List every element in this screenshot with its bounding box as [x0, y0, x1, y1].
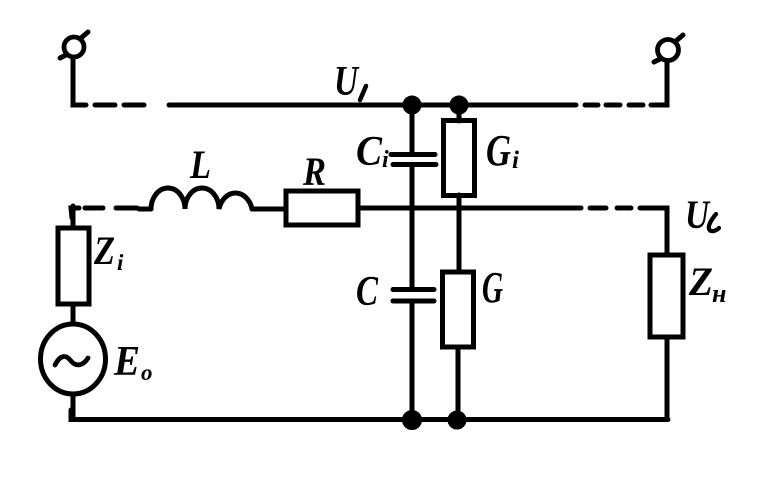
wire inductor to resistor R	[252, 207, 286, 212]
label Zн	[688, 259, 726, 308]
svg-text:C: C	[356, 269, 379, 315]
svg-text:L: L	[189, 142, 211, 187]
wire from G down to bottom bus	[456, 347, 461, 419]
wire middle bus right corner down to load	[640, 208, 667, 255]
node J4 (bottom bus junction at x=457)	[450, 413, 464, 427]
wire middle bus solid from R through crossings	[358, 206, 581, 211]
node J2 (top bus junction at x=459)	[452, 98, 466, 112]
capacitor Ci	[391, 155, 436, 165]
load impedance Zн	[650, 255, 683, 337]
label U1	[334, 59, 366, 105]
capacitor C	[393, 290, 434, 302]
wire from node J2 down to resistor Gi	[457, 105, 462, 121]
wire middle bus dashed right section	[590, 206, 631, 211]
wire from Zi to source E0	[71, 304, 76, 324]
svg-text:U: U	[685, 192, 711, 237]
svg-text:o: o	[141, 360, 153, 385]
svg-text:G: G	[482, 263, 503, 312]
conductance G	[443, 272, 474, 347]
wire from resistor Gi to middle bus and down to resistor G	[457, 195, 462, 272]
svg-text:E: E	[113, 339, 140, 385]
wire from capacitor Ci down through middle bus to capacitor C	[410, 167, 415, 287]
resistor R	[286, 191, 358, 225]
svg-text:i: i	[117, 250, 124, 275]
wire bottom bus	[71, 410, 668, 420]
wire middle bus dashed left section	[85, 206, 137, 211]
inductor L	[151, 188, 252, 209]
terminal T1 (top-left input terminal)	[60, 32, 88, 58]
svg-text:R: R	[302, 149, 326, 194]
svg-text:C: C	[356, 129, 383, 175]
wire from capacitor C down to bottom bus	[410, 303, 415, 419]
svg-text:Z: Z	[688, 259, 713, 304]
wire from T1 down to top bus corner	[73, 57, 86, 105]
label Zi	[93, 228, 124, 275]
label Ci	[356, 129, 389, 175]
svg-text:i: i	[512, 147, 519, 174]
svg-text:н: н	[712, 279, 726, 308]
svg-text:i: i	[382, 147, 389, 173]
node J1 (top bus junction at x=412)	[405, 98, 419, 112]
wire left branch from middle bus down to Zi	[71, 206, 76, 228]
wire top bus dashed right section	[585, 103, 643, 108]
label E0	[113, 339, 152, 385]
label Gi	[486, 126, 519, 175]
svg-text:Z: Z	[93, 228, 115, 273]
wire from Zн down to bottom bus	[665, 337, 670, 419]
terminal T2 (top-right terminal)	[654, 35, 683, 62]
wire from E0 down to bottom bus	[71, 394, 76, 419]
wire from node J1 down to capacitor Ci	[410, 105, 415, 152]
wire top bus right corner to T2	[651, 62, 667, 105]
resistor Gi	[444, 121, 475, 196]
wire middle bus into inductor	[139, 207, 151, 212]
wire top bus solid section (node U1 line)	[169, 103, 576, 108]
svg-text:G: G	[486, 126, 511, 175]
wire middle bus left corner	[71, 208, 79, 218]
svg-text:U: U	[334, 59, 360, 105]
wire top bus dashed left section	[95, 103, 144, 108]
node J3 (bottom bus junction at x=412)	[405, 413, 420, 428]
impedance Zi	[58, 228, 89, 304]
label Ul	[685, 192, 719, 237]
source E0 (sine generator)	[41, 324, 106, 394]
